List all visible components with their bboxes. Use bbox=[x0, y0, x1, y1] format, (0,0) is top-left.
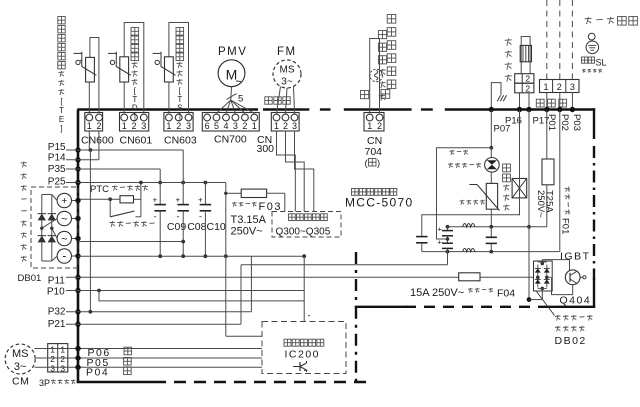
connector CN300 bbox=[271, 113, 299, 132]
svg-text:4: 4 bbox=[223, 121, 228, 131]
reactor connector (2-pin) upper bbox=[515, 74, 534, 84]
svg-text:-: - bbox=[154, 212, 157, 222]
collector bus DB02 to IGBT bbox=[542, 259, 569, 261]
DB01 terminal - bbox=[57, 249, 71, 263]
svg-text:~: ~ bbox=[61, 214, 67, 226]
svg-text:3P: 3P bbox=[39, 378, 50, 388]
svg-text:704: 704 bbox=[365, 146, 383, 158]
wire P16 through current sensor to filter bbox=[422, 110, 520, 236]
wire minus feed vertical to IC200 bbox=[303, 256, 305, 321]
svg-text:2: 2 bbox=[525, 83, 530, 93]
compressor wires U/V/W bbox=[35, 348, 68, 350]
svg-text:E: E bbox=[59, 115, 64, 124]
short leads from terminal block to board pads bbox=[546, 93, 548, 110]
pad P06 bbox=[75, 346, 80, 351]
filter row A bbox=[448, 226, 548, 228]
four-way valve coil symbol bbox=[370, 69, 383, 82]
power relay label bbox=[110, 221, 116, 223]
fuse F01 name label bbox=[565, 187, 570, 215]
wire P32 row bbox=[66, 311, 251, 313]
svg-text:P15: P15 bbox=[48, 142, 66, 153]
svg-text:1: 1 bbox=[367, 121, 372, 131]
svg-text:3: 3 bbox=[186, 121, 191, 131]
pad P11 bbox=[75, 275, 80, 280]
wire PTC row bbox=[78, 198, 120, 200]
DB01 terminal ~ (2) bbox=[57, 231, 71, 245]
pad P14 bbox=[75, 157, 80, 162]
svg-text:MCC-5070: MCC-5070 bbox=[345, 196, 413, 210]
wire P25 row (cap feed) bbox=[66, 182, 226, 184]
wire P35 row to C09 top bbox=[66, 168, 160, 170]
svg-text:PMV: PMV bbox=[218, 46, 247, 58]
svg-text:3: 3 bbox=[50, 364, 55, 374]
connector CN601 bbox=[120, 113, 149, 132]
svg-text:3: 3 bbox=[292, 121, 297, 131]
wire P14 row to CN600 pin2 bbox=[66, 159, 99, 161]
svg-text:F01: F01 bbox=[560, 218, 571, 234]
PCB board outline: top edge bbox=[77, 108, 258, 110]
reactor label bbox=[505, 39, 512, 41]
power relay contact bbox=[109, 199, 111, 217]
3P connector bbox=[48, 344, 68, 372]
pad P10 bbox=[75, 288, 80, 293]
svg-text:IGBT: IGBT bbox=[560, 250, 591, 262]
svg-text:5: 5 bbox=[214, 121, 219, 131]
diode block DB02 bbox=[534, 261, 553, 291]
svg-text:~: ~ bbox=[61, 234, 67, 246]
svg-text:3: 3 bbox=[570, 82, 575, 92]
wire colors black/white/orange bbox=[536, 99, 544, 107]
connector CN704 bbox=[364, 113, 384, 132]
svg-text:P35: P35 bbox=[48, 164, 66, 175]
PMV wire bundle (5 wires) bbox=[230, 87, 233, 100]
reactor L1 bbox=[521, 37, 530, 74]
PCB board outline: bottom edge bbox=[77, 381, 154, 383]
wire F03 feed long vertical to IC200 bbox=[225, 193, 227, 336]
surge absorber bbox=[490, 148, 492, 158]
FM wire colors red/white/black bbox=[265, 97, 272, 104]
svg-text:DB02: DB02 bbox=[555, 335, 587, 347]
drive elements Q300-Q305 box bbox=[272, 212, 341, 238]
svg-text:P07: P07 bbox=[494, 124, 511, 135]
svg-text:P14: P14 bbox=[48, 153, 66, 164]
coil wire colors red / yellow bbox=[361, 91, 369, 99]
svg-text:CM: CM bbox=[12, 376, 29, 388]
outdoor SL connector label bbox=[582, 57, 588, 63]
svg-text:-: - bbox=[308, 311, 311, 321]
svg-text:250V~: 250V~ bbox=[535, 190, 546, 218]
svg-text:1: 1 bbox=[60, 345, 65, 355]
svg-text:2: 2 bbox=[377, 121, 382, 131]
svg-text:C08: C08 bbox=[187, 221, 206, 233]
svg-text:250V~: 250V~ bbox=[231, 225, 263, 237]
four-way valve coil wire loop bbox=[370, 39, 380, 113]
current sensor bbox=[512, 179, 527, 198]
svg-text:M: M bbox=[226, 67, 238, 83]
svg-text:5: 5 bbox=[238, 94, 243, 105]
diode block DB01 outline bbox=[31, 187, 78, 268]
svg-text:Q404: Q404 bbox=[560, 295, 592, 307]
connector CN600 bbox=[85, 113, 103, 132]
svg-text:P10: P10 bbox=[47, 287, 65, 298]
svg-text:MS: MS bbox=[280, 65, 295, 76]
earth terminal label bbox=[585, 17, 592, 19]
thermistor TD wire loop bbox=[123, 82, 125, 113]
varistor bbox=[490, 172, 492, 183]
svg-text:-: - bbox=[177, 212, 180, 222]
DB01 terminal ~ (1) bbox=[57, 211, 71, 225]
reactor leads to pads P16/P17 bbox=[519, 93, 521, 110]
svg-text:): ) bbox=[377, 158, 380, 169]
wire P17 down to DB02 bbox=[528, 110, 530, 300]
svg-text:300: 300 bbox=[257, 143, 275, 155]
wire sensor common P15 to P32 bbox=[89, 150, 91, 312]
svg-text:3: 3 bbox=[60, 364, 65, 374]
thermistor TD bbox=[120, 57, 129, 82]
fuse F01 bbox=[542, 159, 554, 185]
thermistor TE wire loop bbox=[88, 82, 90, 113]
filter cap right bbox=[490, 227, 492, 237]
thermistor TS wire loop bbox=[168, 82, 170, 113]
svg-text:2: 2 bbox=[283, 121, 288, 131]
fuse F04 bbox=[459, 273, 480, 281]
compressor motor CM (MS 3~) bbox=[5, 344, 35, 374]
pad P32 bbox=[75, 309, 80, 314]
svg-text:-: - bbox=[62, 249, 66, 263]
svg-text:3~: 3~ bbox=[14, 361, 27, 373]
capacitor C10 bbox=[204, 183, 206, 205]
svg-text:1: 1 bbox=[87, 121, 92, 131]
svg-text:2: 2 bbox=[242, 121, 247, 131]
sensor TS label (suction temp sensor) bbox=[176, 28, 184, 36]
svg-text:P11: P11 bbox=[48, 276, 65, 287]
power supply leads (dashed) bbox=[546, 0, 548, 80]
wire P07 surge feed bbox=[490, 110, 492, 148]
pad P01 bbox=[544, 107, 549, 112]
svg-text:T: T bbox=[59, 106, 64, 115]
wire bus AC branch bbox=[78, 241, 183, 243]
svg-text:FM: FM bbox=[277, 46, 297, 58]
PCB board outline: right edge bbox=[593, 108, 595, 139]
svg-text:2: 2 bbox=[96, 121, 101, 131]
pad P16 bbox=[517, 107, 522, 112]
svg-text:3~: 3~ bbox=[281, 77, 293, 88]
svg-text:SL: SL bbox=[596, 58, 607, 68]
svg-text:1: 1 bbox=[543, 82, 548, 92]
pad P35 bbox=[75, 166, 80, 171]
svg-text:F04: F04 bbox=[497, 288, 515, 300]
fuse F03 label bbox=[232, 202, 237, 204]
pad P15 bbox=[75, 147, 80, 152]
pad P05 bbox=[75, 355, 80, 360]
fan motor FM (MS 3~) bbox=[273, 60, 301, 88]
PCB board outline: power-section left step edge bbox=[355, 252, 357, 307]
svg-text:2: 2 bbox=[557, 82, 562, 92]
svg-text:15A 250V~: 15A 250V~ bbox=[410, 287, 464, 299]
svg-text:P32: P32 bbox=[48, 307, 66, 318]
diode block DB01 label bbox=[21, 162, 27, 164]
svg-text:+: + bbox=[198, 196, 203, 205]
svg-text:]: ] bbox=[60, 124, 62, 133]
svg-text:1: 1 bbox=[252, 121, 257, 131]
wire AC row to filter bbox=[241, 264, 448, 266]
svg-text:P21: P21 bbox=[48, 319, 66, 330]
connector CN603 bbox=[164, 113, 193, 132]
svg-text:+: + bbox=[153, 196, 158, 205]
wire DB01 minus row bbox=[78, 255, 304, 257]
FM wires bbox=[277, 87, 281, 114]
wire CN600 pin1 down bbox=[88, 131, 90, 150]
IGBT Q404 bbox=[565, 270, 580, 285]
PTC thermistor bbox=[120, 196, 134, 203]
sensor TD label (discharge temp sensor) bbox=[131, 28, 139, 36]
thermistor TE bbox=[86, 57, 95, 82]
wire P10 row bbox=[66, 290, 304, 292]
wire P11 row to fuse F04 bbox=[66, 276, 459, 278]
chassis ground of board bbox=[491, 83, 501, 109]
surge absorber label bbox=[450, 150, 455, 152]
svg-text:]: ] bbox=[134, 112, 136, 121]
svg-text:2: 2 bbox=[525, 74, 530, 84]
varistor label bbox=[460, 200, 465, 202]
svg-text:3: 3 bbox=[141, 121, 146, 131]
svg-text:-: - bbox=[199, 212, 202, 222]
svg-text:6: 6 bbox=[205, 121, 210, 131]
reactor connector (2-pin) lower bbox=[515, 83, 534, 93]
DB01 bridge rectifier diodes bbox=[41, 195, 43, 262]
svg-text:F03: F03 bbox=[259, 201, 282, 213]
svg-text:2: 2 bbox=[176, 121, 181, 131]
wire DB02 right to emitter loop bbox=[547, 276, 552, 278]
svg-text:+: + bbox=[176, 196, 181, 205]
svg-text:Q300~Q305: Q300~Q305 bbox=[276, 226, 331, 237]
connector CN700 bbox=[202, 113, 259, 132]
wire P15 row bbox=[66, 149, 184, 151]
capacitor C08 bbox=[182, 150, 184, 204]
sensor TE label (outdoor heat-exchanger temp sensor) bbox=[58, 17, 65, 24]
svg-text:CN601: CN601 bbox=[120, 135, 153, 147]
svg-text:MS: MS bbox=[12, 348, 29, 360]
filter cap left bbox=[416, 236, 427, 238]
svg-text:T3.15A: T3.15A bbox=[231, 214, 267, 226]
wire P10 branch row bbox=[99, 291, 304, 301]
svg-text:DB01: DB01 bbox=[18, 273, 42, 284]
fan motor wires CN300 to Q300 box bbox=[277, 131, 296, 212]
svg-text:IC200: IC200 bbox=[285, 349, 321, 361]
svg-text:+: + bbox=[61, 195, 67, 207]
svg-text:P03: P03 bbox=[571, 114, 582, 131]
IGBT emitter return bbox=[552, 285, 573, 295]
thermistor TS bbox=[165, 57, 174, 82]
terminal block connector 1 2 3 bbox=[540, 80, 580, 93]
svg-text:CN600: CN600 bbox=[81, 135, 114, 147]
IC200 transistor glyph bbox=[293, 366, 300, 368]
pad P07 bbox=[489, 107, 494, 112]
earth terminal symbol bbox=[588, 33, 595, 40]
filter row B bbox=[448, 251, 560, 253]
current sensor label bbox=[503, 164, 511, 172]
svg-text:+: + bbox=[438, 225, 443, 234]
fuse F03 bbox=[225, 183, 227, 194]
pad P04 bbox=[75, 365, 80, 370]
svg-text:1: 1 bbox=[122, 121, 127, 131]
svg-text:CN603: CN603 bbox=[164, 135, 197, 147]
PCB board outline: left edge (main bus border) bbox=[77, 110, 80, 384]
svg-text:P04: P04 bbox=[86, 366, 109, 378]
pad P03 bbox=[570, 107, 575, 112]
pad P21 bbox=[75, 322, 80, 327]
capacitor C09 bbox=[154, 204, 166, 206]
common-mode choke bottom bbox=[463, 248, 475, 251]
wire P02 down to collector bus bbox=[559, 110, 561, 252]
svg-text:1: 1 bbox=[50, 345, 55, 355]
svg-text:C10: C10 bbox=[207, 221, 226, 233]
svg-text:P25: P25 bbox=[48, 177, 66, 188]
svg-text:CN700: CN700 bbox=[214, 134, 247, 146]
DB01 terminal + bbox=[57, 193, 71, 207]
pad P17 bbox=[526, 107, 531, 112]
PMV motor M1 bbox=[218, 60, 245, 87]
svg-text:2: 2 bbox=[131, 121, 136, 131]
svg-text:P01: P01 bbox=[546, 114, 557, 131]
wire row B left drop bbox=[447, 252, 449, 265]
svg-text:1: 1 bbox=[166, 121, 171, 131]
drive element IC200 box bbox=[262, 322, 346, 374]
PCB board outline: bottom-right edge bbox=[549, 306, 595, 308]
svg-text:1: 1 bbox=[274, 121, 279, 131]
pad P02 bbox=[557, 107, 562, 112]
svg-text:+: + bbox=[438, 238, 443, 247]
common-mode choke top bbox=[463, 224, 475, 227]
filter series caps bbox=[447, 227, 449, 231]
svg-text:3: 3 bbox=[233, 121, 238, 131]
svg-text:PTC: PTC bbox=[90, 184, 109, 195]
control board assembly label bbox=[352, 189, 359, 196]
svg-text:P02: P02 bbox=[559, 114, 570, 131]
wire P21 row bbox=[66, 323, 241, 325]
diode block DB02 label with leader bbox=[537, 292, 555, 316]
four-way valve coil label (cooling/heating switch) bbox=[387, 15, 396, 24]
pad P25 bbox=[75, 180, 80, 185]
compressor wire colors red/white/black bbox=[124, 347, 132, 355]
